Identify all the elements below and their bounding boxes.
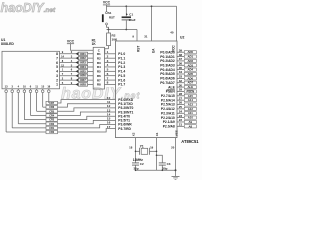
- svg-text:32: 32: [179, 79, 183, 83]
- svg-text:P1.4: P1.4: [118, 70, 125, 74]
- svg-text:VCC: VCC: [67, 39, 75, 43]
- svg-text:28: 28: [179, 92, 183, 96]
- svg-text:P3.3/INT1: P3.3/INT1: [118, 110, 133, 114]
- svg-text:2: 2: [56, 78, 58, 82]
- svg-text:P2.1/A9: P2.1/A9: [163, 120, 175, 124]
- svg-text:A8: A8: [189, 124, 193, 128]
- svg-text:AD6: AD6: [187, 76, 193, 80]
- svg-text:P1.6: P1.6: [118, 78, 125, 82]
- svg-text:4: 4: [107, 63, 109, 67]
- svg-text:20: 20: [171, 145, 175, 149]
- svg-text:6: 6: [107, 72, 109, 76]
- svg-text:3: 3: [56, 74, 58, 78]
- svg-text:R2: R2: [112, 33, 116, 37]
- svg-text:P2.0/A8: P2.0/A8: [163, 125, 175, 129]
- svg-text:33: 33: [179, 75, 183, 79]
- svg-text:C2: C2: [140, 162, 144, 166]
- svg-text:15: 15: [107, 117, 111, 121]
- svg-text:A10: A10: [188, 116, 194, 120]
- svg-text:CR4: CR4: [49, 114, 55, 117]
- svg-text:Y1: Y1: [140, 144, 144, 148]
- svg-text:P1.0: P1.0: [118, 52, 125, 56]
- svg-text:R1: R1: [97, 52, 101, 56]
- svg-text:P2.4/A12: P2.4/A12: [161, 107, 175, 111]
- svg-text:7: 7: [107, 76, 109, 80]
- svg-text:19: 19: [150, 145, 154, 149]
- svg-text:AT89C51: AT89C51: [181, 139, 199, 144]
- svg-text:6: 6: [56, 61, 58, 65]
- svg-text:A12: A12: [188, 107, 194, 111]
- svg-text:P0.4/AD4: P0.4/AD4: [160, 68, 175, 72]
- svg-text:AD7: AD7: [187, 81, 193, 85]
- svg-text:24: 24: [179, 109, 183, 113]
- svg-text:R5: R5: [97, 70, 101, 74]
- svg-text:P2.5/A13: P2.5/A13: [161, 103, 175, 107]
- svg-text:39: 39: [179, 48, 183, 52]
- svg-text:CR3: CR3: [49, 119, 55, 122]
- svg-text:R3: R3: [97, 61, 101, 65]
- svg-text:CR5: CR5: [49, 110, 55, 113]
- svg-text:10: 10: [107, 96, 111, 100]
- svg-text:R7: R7: [97, 78, 101, 82]
- svg-text:+: +: [126, 13, 128, 17]
- svg-text:P0.2/AD2: P0.2/AD2: [160, 59, 175, 63]
- svg-text:30p: 30p: [134, 166, 139, 170]
- svg-text:R6: R6: [97, 74, 101, 78]
- svg-text:AD2: AD2: [187, 59, 193, 63]
- svg-text:1: 1: [56, 83, 58, 87]
- svg-text:P3.4/T0: P3.4/T0: [118, 114, 130, 118]
- svg-text:P1.1: P1.1: [118, 56, 125, 60]
- svg-text:12: 12: [107, 104, 111, 108]
- svg-text:30: 30: [179, 83, 183, 87]
- svg-text:P3.0/RXD: P3.0/RXD: [118, 98, 133, 102]
- svg-text:RST: RST: [109, 15, 115, 19]
- svg-text:RST: RST: [137, 46, 141, 52]
- svg-text:ALE: ALE: [168, 85, 175, 89]
- svg-text:21: 21: [179, 123, 183, 127]
- svg-text:P2.3/A11: P2.3/A11: [161, 111, 175, 115]
- svg-text:S1: S1: [108, 11, 112, 15]
- svg-text:P0.7/AD7: P0.7/AD7: [160, 81, 175, 85]
- svg-text:27: 27: [179, 96, 183, 100]
- svg-text:PSEN: PSEN: [166, 90, 176, 94]
- svg-text:38: 38: [179, 53, 183, 57]
- svg-text:P1.2: P1.2: [118, 61, 125, 65]
- svg-text:PSEN: PSEN: [186, 89, 194, 93]
- svg-text:14: 14: [107, 112, 111, 116]
- svg-text:P3.2/INT0: P3.2/INT0: [118, 106, 133, 110]
- svg-text:CR2: CR2: [49, 123, 55, 126]
- svg-text:5: 5: [107, 68, 109, 72]
- svg-text:P0.0/AD0: P0.0/AD0: [160, 50, 175, 54]
- svg-text:40: 40: [170, 31, 174, 35]
- svg-text:U2: U2: [180, 35, 184, 39]
- svg-text:10uF: 10uF: [129, 18, 136, 22]
- svg-text:37: 37: [179, 57, 183, 61]
- svg-text:AD0: AD0: [187, 50, 193, 54]
- svg-text:8X8LED: 8X8LED: [1, 42, 14, 46]
- svg-text:AD3: AD3: [187, 63, 193, 67]
- svg-text:17: 17: [107, 125, 111, 129]
- svg-text:P0.3/AD3: P0.3/AD3: [160, 63, 175, 67]
- svg-text:13: 13: [107, 108, 111, 112]
- svg-text:P0.6/AD6: P0.6/AD6: [160, 77, 175, 81]
- svg-text:26: 26: [179, 101, 183, 105]
- svg-text:CR1: CR1: [49, 127, 55, 130]
- svg-text:18: 18: [129, 145, 133, 149]
- svg-text:1: 1: [107, 50, 109, 54]
- svg-text:P3.7/RD: P3.7/RD: [118, 127, 131, 131]
- svg-text:R2: R2: [97, 56, 101, 60]
- svg-text:CR0: CR0: [49, 131, 55, 134]
- svg-text:8: 8: [56, 52, 58, 56]
- svg-text:X2: X2: [131, 132, 135, 136]
- svg-text:7: 7: [56, 56, 58, 60]
- svg-text:R4: R4: [97, 65, 101, 69]
- svg-text:P1.7: P1.7: [118, 83, 125, 87]
- svg-text:P2.7/A15: P2.7/A15: [161, 94, 175, 98]
- svg-text:8: 8: [107, 81, 109, 85]
- svg-text:2: 2: [107, 54, 109, 58]
- svg-text:P0.1/AD1: P0.1/AD1: [160, 55, 175, 59]
- svg-text:31: 31: [144, 35, 148, 39]
- svg-text:34: 34: [179, 70, 183, 74]
- svg-text:U1: U1: [1, 38, 5, 42]
- svg-text:VSS: VSS: [175, 130, 179, 136]
- svg-text:4: 4: [56, 70, 58, 74]
- svg-text:3: 3: [107, 59, 109, 63]
- svg-text:29: 29: [179, 88, 183, 92]
- svg-text:AD1: AD1: [187, 55, 193, 59]
- svg-text:CR7: CR7: [49, 102, 55, 105]
- svg-text:CR6: CR6: [49, 106, 55, 109]
- svg-text:VCC: VCC: [103, 1, 111, 5]
- svg-text:P3.6/WR: P3.6/WR: [118, 123, 132, 127]
- svg-text:ALE: ALE: [187, 85, 193, 89]
- svg-text:A15: A15: [188, 94, 194, 98]
- svg-text:25: 25: [179, 105, 183, 109]
- svg-text:A9: A9: [189, 120, 193, 124]
- svg-text:P1.5: P1.5: [118, 74, 125, 78]
- svg-text:P3.5/T1: P3.5/T1: [118, 119, 130, 123]
- svg-text:AD5: AD5: [187, 72, 193, 76]
- svg-text:EA: EA: [151, 48, 155, 53]
- svg-text:A11: A11: [188, 111, 193, 115]
- svg-text:22: 22: [179, 118, 183, 122]
- svg-text:16: 16: [107, 121, 111, 125]
- svg-text:1K: 1K: [92, 42, 97, 46]
- svg-text:P3.1/TXD: P3.1/TXD: [118, 102, 133, 106]
- svg-text:30p: 30p: [162, 166, 167, 170]
- svg-text:P2.2/A10: P2.2/A10: [161, 116, 175, 120]
- svg-text:A14: A14: [188, 98, 194, 102]
- svg-text:36: 36: [179, 61, 183, 65]
- svg-text:R8: R8: [97, 83, 101, 87]
- svg-text:A13: A13: [188, 103, 194, 107]
- svg-text:5: 5: [56, 65, 58, 69]
- svg-text:AD4: AD4: [187, 68, 193, 72]
- svg-text:35: 35: [179, 66, 183, 70]
- svg-text:P0.5/AD5: P0.5/AD5: [160, 72, 175, 76]
- svg-text:11: 11: [107, 100, 111, 104]
- svg-text:12MHz: 12MHz: [133, 158, 144, 162]
- svg-text:23: 23: [179, 114, 183, 118]
- svg-text:C3: C3: [167, 162, 171, 166]
- svg-text:P2.6/A14: P2.6/A14: [161, 98, 175, 102]
- svg-text:X1: X1: [155, 132, 159, 136]
- svg-text:C1: C1: [129, 13, 133, 17]
- svg-text:P1.3: P1.3: [118, 65, 125, 69]
